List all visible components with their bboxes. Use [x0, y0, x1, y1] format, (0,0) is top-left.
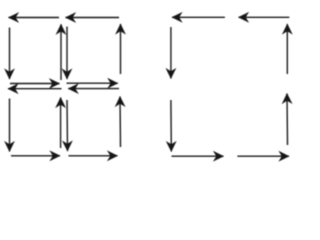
arrow: bottom edge of top-left square (interior), pointing right	[10, 83, 60, 85]
arrow: left edge of bottom-right square (interior), pointing down	[66, 100, 69, 151]
arrow: top edge of top-left square, pointing left	[9, 17, 60, 19]
arrow: left edge of bottom-left square, pointing down	[9, 99, 11, 152]
arrow: bottom edge of bottom-left square, pointing right	[11, 155, 60, 157]
arrow: left edge of top-left square, pointing down	[9, 28, 11, 80]
arrow: bottom edge left half of boundary square, pointing right	[172, 155, 224, 157]
arrow: bottom edge of bottom-right square, pointing right	[69, 155, 118, 157]
arrow: left edge lower half of boundary square, pointing down	[170, 100, 172, 152]
arrow: top edge of bottom-right square (interior), pointing left	[68, 88, 119, 90]
arrow: right edge of top-right square, pointing up	[120, 24, 122, 74]
arrow: bottom edge of top-right square (interior), pointing right	[67, 82, 118, 84]
arrow: right edge of top-left square (interior), pointing up	[60, 24, 62, 80]
arrow: bottom edge right half of boundary square, pointing right	[237, 155, 289, 157]
arrow: top edge right half of boundary square, pointing left	[239, 16, 290, 18]
arrow: top edge left half of boundary square, pointing left	[172, 16, 225, 18]
arrow: right edge of bottom-left square (interior), pointing up	[60, 98, 62, 149]
arrow: right edge upper half of boundary square, pointing up	[286, 24, 288, 74]
arrow: left edge of top-right square (interior), pointing down	[66, 27, 68, 80]
arrow: top edge of top-right square, pointing left	[66, 17, 120, 19]
arrow: top edge of bottom-left square (interior), pointing left	[8, 88, 62, 90]
arrow: left edge upper half of boundary square, pointing down	[170, 27, 172, 79]
arrow: right edge of bottom-right square, pointing up	[119, 97, 122, 148]
arrow: right edge lower half of boundary square, pointing up	[286, 94, 289, 146]
